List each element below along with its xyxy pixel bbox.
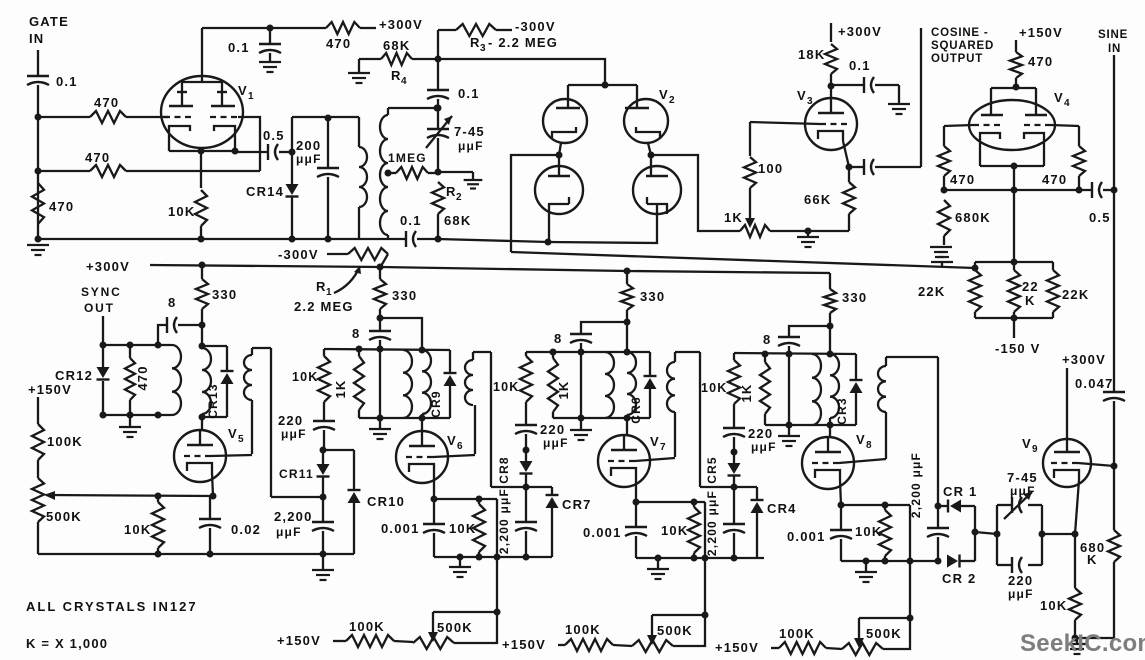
transformer winding T1 secondary — [388, 107, 437, 109]
capacitor 0.1 plate bypass — [269, 28, 271, 43]
svg-text:10K: 10K — [661, 523, 688, 538]
capacitor 8 stage2 — [379, 318, 381, 330]
wire V3 cathode bottom — [770, 230, 849, 232]
svg-text:2,200 μμF: 2,200 μμF — [705, 490, 719, 556]
svg-text:10K: 10K — [449, 521, 476, 536]
svg-text:CR8: CR8 — [497, 456, 511, 484]
resistor 100 — [749, 122, 751, 156]
svg-text:10K: 10K — [124, 522, 151, 537]
svg-text:SYNC: SYNC — [81, 285, 122, 299]
node trimmer/1MEG — [435, 169, 442, 176]
resistor 22K left — [974, 262, 976, 270]
grid return rail to divider — [511, 252, 975, 268]
grid winding stage2 — [473, 351, 491, 353]
V8 cathode box — [841, 504, 910, 506]
wire R3 column — [437, 30, 439, 89]
svg-text:100: 100 — [758, 161, 783, 176]
tube V4 plates — [981, 114, 1003, 117]
capacitor 220uuF stage1 coupling — [313, 420, 335, 422]
pot line stage3 — [704, 558, 706, 615]
wire cathode bus — [200, 151, 202, 188]
svg-text:2,200 μμF: 2,200 μμF — [909, 452, 923, 518]
resistor 100K group3 — [771, 647, 779, 649]
tube V6 — [396, 431, 448, 483]
grid winding stage3 — [675, 351, 700, 353]
wire gate bus — [37, 117, 39, 171]
V4 left grid wire — [944, 125, 973, 126]
node V3 plate — [828, 83, 835, 90]
svg-text:6: 6 — [457, 441, 464, 452]
svg-text:CR9: CR9 — [429, 390, 443, 418]
transformer winding T1 primary — [358, 117, 360, 147]
stage2 bottom rail — [434, 556, 552, 558]
capacitor 220uuF V9 — [1011, 557, 1013, 573]
wiper group2 — [651, 615, 653, 639]
svg-text:OUTPUT: OUTPUT — [931, 53, 983, 65]
tube V7 — [598, 435, 650, 487]
svg-text:R: R — [391, 68, 402, 83]
svg-text:0.001: 0.001 — [381, 521, 420, 536]
node right grid divider — [1076, 187, 1083, 194]
divider box 22K — [975, 261, 1053, 263]
svg-text:8: 8 — [763, 332, 771, 347]
wire 200uuF loop top — [292, 116, 359, 118]
tank4 bottom rail — [765, 424, 856, 426]
svg-text:V: V — [856, 432, 866, 447]
svg-text:K: K — [1087, 552, 1098, 567]
capacitor 2200uuF stage1 — [322, 497, 324, 521]
grid winding right side stage2 — [490, 352, 492, 487]
node V9 output on sine line — [1111, 463, 1118, 470]
svg-text:3: 3 — [480, 43, 487, 54]
svg-text:μμF: μμF — [458, 139, 484, 153]
resistor 10K hang stage4tank — [733, 353, 735, 360]
svg-text:680K: 680K — [955, 210, 991, 225]
ground 680K — [943, 236, 945, 245]
resistor 100K group2 — [558, 644, 565, 646]
resistor 680K — [1113, 466, 1115, 530]
tube V1 envelope — [161, 76, 243, 148]
svg-text:0.1: 0.1 — [228, 40, 250, 55]
svg-text:V: V — [447, 433, 457, 448]
winding tank2 — [403, 350, 412, 418]
svg-text:330: 330 — [842, 290, 867, 305]
wire V2 left grid return — [511, 155, 559, 252]
svg-text:7-45: 7-45 — [1007, 470, 1038, 485]
svg-text:220: 220 — [748, 426, 773, 441]
capacitor 0.001 stage2 — [433, 499, 435, 523]
svg-text:R: R — [470, 35, 481, 50]
wiper group3 — [858, 618, 860, 642]
tube V2 lower-right unit — [633, 166, 681, 214]
crystal CR13 loop — [202, 345, 227, 347]
grid winding right side — [270, 348, 272, 497]
capacitor 0.1 in return rail — [405, 231, 407, 247]
plate feed jog stage3 — [581, 322, 627, 333]
resistor 470 lower grid — [90, 165, 126, 177]
resistor 470 upper grid — [90, 111, 126, 123]
svg-text:SeekIC.com: SeekIC.com — [1020, 630, 1145, 657]
crystal CR10 loop — [323, 449, 354, 451]
tube V8 — [802, 437, 854, 489]
resistor 10K hang stage3tank — [525, 352, 527, 356]
svg-text:470: 470 — [94, 95, 119, 110]
svg-text:4: 4 — [401, 76, 408, 87]
crystal CR6 loop — [649, 352, 651, 376]
grid winding stage1 — [252, 347, 271, 349]
svg-text:470: 470 — [85, 150, 110, 165]
capacitor 0.1 V3 plate — [831, 84, 864, 86]
capacitor 0.1 gate input — [27, 75, 49, 77]
node grid return at divider — [972, 265, 979, 272]
V7 cathode box — [636, 501, 705, 503]
svg-text:100K: 100K — [779, 626, 815, 641]
svg-text:22K: 22K — [918, 284, 945, 299]
wiper wire stage1 — [46, 495, 213, 496]
bottom return rail V1 stage — [38, 238, 406, 240]
capacitor 0.1 column — [427, 89, 449, 91]
resistor 330 stage4 — [829, 273, 831, 289]
svg-text:+300V: +300V — [838, 24, 882, 39]
svg-text:22K: 22K — [1062, 287, 1089, 302]
resistor 470 to ground — [32, 183, 44, 224]
tank1 bottom rail — [103, 414, 172, 416]
tube V1 plate leads — [182, 82, 222, 106]
svg-text:V: V — [1022, 436, 1032, 451]
svg-text:CR5: CR5 — [705, 456, 719, 484]
svg-text:500K: 500K — [437, 620, 473, 635]
ground stage3 — [657, 558, 659, 568]
svg-text:10K: 10K — [168, 204, 195, 219]
ground line stage3 — [580, 352, 582, 418]
svg-text:CR3: CR3 — [835, 397, 849, 425]
svg-text:0.1: 0.1 — [849, 58, 871, 73]
svg-text:0.1: 0.1 — [458, 86, 480, 101]
wire V2 output right — [651, 155, 740, 231]
capacitor 0.5 sine input — [1091, 182, 1093, 198]
bottom node V9 — [1075, 637, 1114, 639]
svg-text:2.2 MEG: 2.2 MEG — [294, 299, 354, 314]
svg-text:10K: 10K — [493, 380, 520, 394]
pot line stage4 — [909, 561, 911, 618]
trimmer 7-45 uuF — [437, 108, 439, 128]
tank3 top rail — [526, 351, 650, 353]
crystal CR5 — [733, 452, 735, 463]
svg-text:3: 3 — [807, 96, 814, 107]
ground gate bus — [27, 244, 49, 246]
resistor 680K — [938, 200, 950, 236]
resistor 1K tank2 — [358, 349, 360, 356]
svg-text:470: 470 — [1028, 54, 1053, 69]
cosine output line — [920, 28, 922, 167]
ground V9 — [1076, 638, 1078, 643]
svg-text:10K: 10K — [292, 370, 319, 384]
tube V2 lower-left unit — [535, 166, 583, 214]
svg-text:+150V: +150V — [28, 382, 72, 397]
svg-text:-300V: -300V — [515, 19, 556, 34]
svg-text:10K: 10K — [1040, 598, 1067, 613]
tube V3 — [805, 98, 857, 150]
wire right grid riser — [238, 117, 260, 171]
capacitor 0.02 — [209, 496, 211, 518]
svg-text:CR7: CR7 — [562, 497, 592, 512]
svg-text:8: 8 — [554, 331, 562, 346]
svg-text:330: 330 — [212, 287, 237, 302]
plate feed jog stage4 — [789, 326, 830, 336]
svg-text:-150 V: -150 V — [995, 341, 1041, 356]
svg-text:0.5: 0.5 — [263, 128, 285, 143]
svg-text:66K: 66K — [804, 192, 831, 207]
wire gate input — [37, 50, 39, 75]
svg-text:10K: 10K — [701, 381, 728, 395]
svg-text:V: V — [1054, 90, 1064, 105]
grid winding stage4 — [886, 356, 938, 358]
svg-text:CR4: CR4 — [767, 501, 797, 516]
svg-text:1MEG: 1MEG — [388, 151, 427, 165]
node V4 plate — [1013, 84, 1020, 91]
svg-text:500K: 500K — [657, 623, 693, 638]
svg-text:500K: 500K — [866, 626, 902, 641]
svg-text:68K: 68K — [383, 38, 410, 53]
svg-text:220: 220 — [540, 422, 565, 437]
tube V4 cathodes — [980, 133, 1000, 166]
svg-text:100K: 100K — [47, 434, 83, 449]
tube V2 upper-right unit — [624, 99, 668, 143]
svg-text:V: V — [659, 87, 669, 102]
ground stage1 rail — [322, 554, 324, 569]
svg-text:2: 2 — [669, 95, 676, 106]
svg-text:9: 9 — [1032, 444, 1039, 455]
crystal CR9 loop — [449, 350, 451, 373]
V9 plate lead — [1066, 368, 1068, 439]
resistor 1K tank3 — [552, 352, 554, 358]
svg-text:220: 220 — [278, 413, 303, 428]
stage3 bottom rail — [636, 557, 764, 559]
svg-text:μμF: μμF — [276, 525, 302, 539]
svg-text:18K: 18K — [798, 47, 825, 62]
V4 plate rail — [991, 87, 1036, 89]
svg-text:5: 5 — [238, 434, 245, 445]
potentiometer 500K group1 — [413, 637, 454, 649]
sine input line — [1113, 55, 1115, 391]
ground V3 cathode — [807, 231, 809, 236]
svg-text:IN: IN — [1108, 43, 1121, 55]
node left grid divider — [941, 187, 948, 194]
resistor 470 tank1 — [129, 345, 131, 358]
svg-text:8: 8 — [866, 440, 873, 451]
wiper group1 — [432, 612, 434, 636]
pot 1K wiper — [749, 188, 751, 222]
svg-text:R: R — [446, 184, 457, 199]
svg-text:V: V — [650, 434, 660, 449]
potentiometer 500K group3 — [842, 643, 883, 655]
svg-text:7-45: 7-45 — [454, 124, 485, 139]
winding tank4 — [812, 354, 821, 425]
tank2 top rail — [324, 349, 450, 350]
capacitor 220uuF stage2 coupling — [515, 424, 537, 426]
svg-text:2,200 μμF: 2,200 μμF — [497, 488, 511, 554]
svg-text:μμF: μμF — [296, 152, 322, 166]
resistor 100K stage1 — [37, 397, 39, 424]
capacitor 8 stage4 — [778, 336, 800, 338]
resistor 68K R4 — [359, 58, 381, 60]
winding tank1 — [172, 345, 181, 415]
potentiometer 500K group2 — [632, 640, 673, 652]
svg-text:-300V: -300V — [278, 247, 319, 262]
node V3 cathode — [846, 164, 853, 171]
svg-text:CR6: CR6 — [629, 396, 643, 424]
svg-text:+300V: +300V — [379, 17, 423, 32]
V6 cathode box — [434, 498, 497, 500]
svg-text:22: 22 — [1022, 279, 1039, 294]
capacitor 2200uuF stage4 — [937, 506, 939, 527]
resistor R2 68K — [432, 182, 444, 214]
resistor 66K — [843, 182, 855, 214]
svg-text:470: 470 — [1042, 172, 1067, 187]
resistor 470 plate supply — [326, 22, 360, 34]
svg-text:+150V: +150V — [715, 640, 759, 655]
svg-text:V: V — [797, 88, 807, 103]
svg-text:COSINE -: COSINE - — [931, 27, 989, 39]
trimmer box 7-45/220 — [996, 505, 998, 565]
resistor 10K hang stage2tank — [323, 349, 325, 356]
resistor 470 right — [1073, 146, 1085, 176]
node V2 right cascode — [648, 152, 655, 159]
svg-text:+300V: +300V — [1062, 352, 1106, 367]
trimmer capacitor 7-45 — [1011, 497, 1013, 513]
resistor 10K stage3 — [693, 502, 695, 507]
resistor 330 stage3 — [626, 271, 628, 284]
pot frame group1 — [433, 612, 497, 643]
ground stage2 — [459, 557, 461, 566]
wire CR14 branch — [291, 117, 293, 152]
svg-text:IN: IN — [29, 31, 44, 46]
svg-text:68K: 68K — [444, 213, 471, 228]
plate line stage3 winding — [626, 322, 628, 352]
node gate-grid — [35, 114, 42, 121]
capacitor 8 stage3 — [570, 333, 592, 335]
svg-text:220: 220 — [1008, 573, 1033, 588]
tube V1 grids dashed — [164, 116, 192, 118]
svg-text:500K: 500K — [46, 509, 82, 524]
V4 right grid wire — [1051, 125, 1079, 126]
node V2 left cascode — [556, 152, 563, 159]
pot frame group3 — [859, 618, 910, 649]
resistor 100K group1 — [333, 640, 346, 642]
svg-text:1: 1 — [248, 91, 255, 102]
svg-text:4: 4 — [1064, 98, 1071, 109]
svg-text:470: 470 — [950, 172, 975, 187]
capacitor 0.5 coupling — [267, 144, 269, 160]
svg-text:ALL CRYSTALS IN127: ALL CRYSTALS IN127 — [26, 599, 198, 614]
resistor 470 V4 plate — [1015, 40, 1017, 52]
svg-text:470: 470 — [135, 365, 150, 390]
svg-text:8: 8 — [168, 295, 176, 310]
svg-text:0.047: 0.047 — [1075, 376, 1114, 391]
wire box to cathode node — [1042, 533, 1075, 535]
svg-text:OUT: OUT — [84, 301, 115, 315]
plate top rail V1 — [202, 27, 326, 29]
resistor 18K — [830, 23, 832, 42]
plate line stage4 winding — [829, 326, 831, 354]
svg-text:2: 2 — [456, 192, 463, 203]
V2 plate rail — [568, 84, 637, 86]
crystal CR2 — [947, 555, 958, 568]
V2 lower cathode leads — [656, 204, 658, 214]
tube V4 grids dashed — [973, 124, 1000, 126]
svg-text:μμF: μμF — [1010, 484, 1036, 498]
resistor 22K right — [1052, 262, 1054, 270]
svg-text:+150V: +150V — [1019, 25, 1063, 40]
svg-text:μμF: μμF — [281, 427, 307, 441]
wire return rail to V2 cathodes — [438, 214, 657, 243]
plate line stage2 winding — [422, 350, 431, 414]
svg-text:CR13: CR13 — [206, 383, 220, 418]
svg-text:K: K — [1025, 293, 1036, 308]
svg-text:10K: 10K — [855, 524, 882, 539]
ground plate bypass — [259, 61, 281, 63]
capacitor 0.001 stage4 — [840, 505, 842, 529]
wire return rail to R2 — [417, 238, 438, 240]
crystal CR14 — [286, 184, 299, 195]
tube V9 — [1043, 439, 1091, 487]
tube V5 — [174, 430, 226, 482]
svg-text:K = X 1,000: K = X 1,000 — [26, 636, 108, 651]
stage4 bottom rail — [841, 560, 938, 562]
pot frame group2 — [652, 615, 705, 646]
svg-text:8: 8 — [352, 326, 360, 341]
capacitor 0.001 stage3 — [635, 502, 637, 526]
svg-text:CR 2: CR 2 — [942, 571, 976, 586]
svg-text:330: 330 — [640, 289, 665, 304]
crystal CR11 — [322, 450, 324, 464]
ground R4 — [358, 59, 360, 72]
svg-text:μμF: μμF — [751, 440, 777, 454]
node V1 cathode — [198, 148, 205, 155]
ground stub right — [438, 171, 473, 173]
svg-text:+300V: +300V — [86, 259, 130, 274]
svg-text:470: 470 — [49, 199, 74, 214]
wire sync out — [102, 316, 104, 345]
svg-text:R: R — [316, 279, 327, 294]
capacitor 0.047 — [1103, 391, 1125, 393]
svg-text:+150V: +150V — [502, 637, 546, 652]
crystal CR3 loop — [855, 354, 857, 380]
ground tank1 — [129, 415, 131, 426]
svg-text:1K: 1K — [724, 210, 743, 225]
svg-text:7: 7 — [660, 442, 667, 453]
svg-text:2,200: 2,200 — [274, 509, 313, 524]
capacitor 2200uuF stage2 — [525, 487, 527, 521]
ground line stage2 — [379, 349, 381, 418]
ground on grid return rail — [931, 261, 953, 263]
resistor 10K stage4 — [884, 505, 886, 510]
crystal CR12 — [102, 345, 104, 367]
svg-text:330: 330 — [392, 288, 417, 303]
svg-text:1K: 1K — [556, 380, 571, 399]
tube V1 cathodes — [169, 126, 190, 151]
resistor 10K V9 — [1074, 534, 1076, 588]
svg-text:CR 1: CR 1 — [943, 484, 977, 499]
grid winding right side stage4 — [937, 357, 939, 506]
svg-text:0.1: 0.1 — [56, 74, 78, 89]
+300V rail — [150, 265, 830, 273]
potentiometer R1 2.2MEG — [327, 253, 348, 255]
resistor 1K tank4 — [764, 354, 766, 362]
stage1 bottom rail — [38, 553, 354, 555]
resistor 1MEG — [388, 172, 396, 174]
svg-text:- 2.2 MEG: - 2.2 MEG — [488, 35, 558, 50]
